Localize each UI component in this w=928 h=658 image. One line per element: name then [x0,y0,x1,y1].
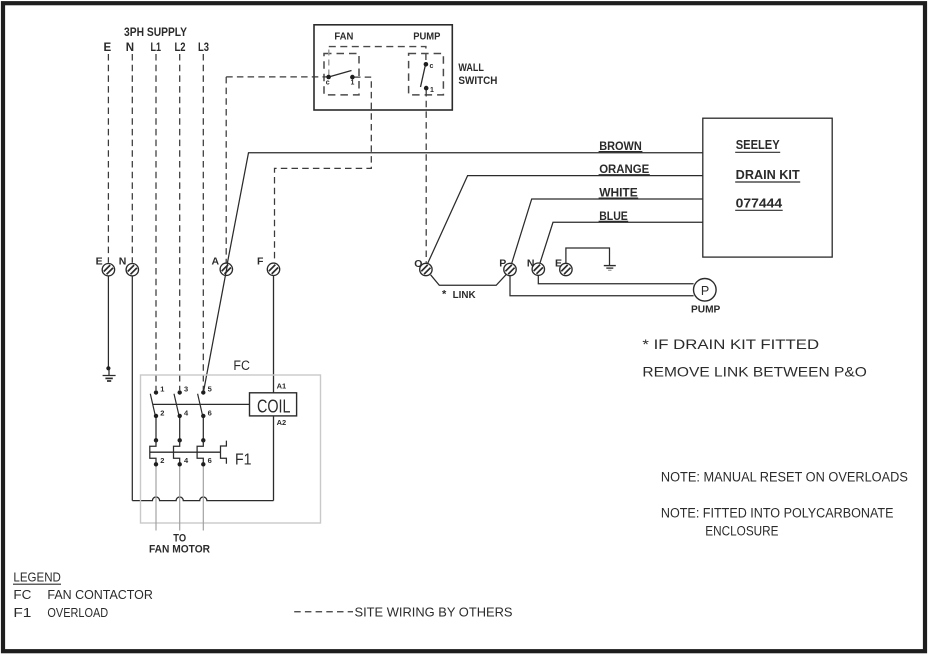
ground symbol right [604,265,616,267]
wire orange from O [428,176,703,264]
overload F1 pole 2 heater [174,440,180,464]
svg-text:LEGEND: LEGEND [13,570,61,585]
svg-text:FC: FC [233,358,250,373]
svg-text:c: c [430,63,434,70]
pump switch dashed box [409,54,444,95]
fan switch contact c [326,75,331,80]
svg-text:A2: A2 [277,418,287,427]
svg-text:NOTE: MANUAL RESET ON OVERLOAD: NOTE: MANUAL RESET ON OVERLOADS [661,469,908,484]
wall switch box [314,25,452,110]
svg-text:5: 5 [208,384,212,393]
svg-text:E: E [104,42,112,54]
motor wire 1 [155,467,157,531]
coil box [250,393,297,416]
svg-text:3: 3 [184,384,188,393]
wire P to pump [510,276,694,296]
svg-text:A1: A1 [277,382,287,391]
svg-text:1: 1 [160,384,164,393]
ground symbol left [108,368,110,375]
contactor linkage line to coil [153,403,250,405]
svg-text:OVERLOAD: OVERLOAD [47,605,108,620]
svg-text:3PH SUPPLY: 3PH SUPPLY [124,27,187,39]
svg-text:E: E [96,255,103,267]
svg-text:TO: TO [173,532,186,544]
terminal E right [560,263,572,275]
svg-text:6: 6 [208,408,212,417]
svg-text:L1: L1 [151,42,162,54]
svg-text:COIL: COIL [257,396,291,417]
wire dashed from fan c to left [226,76,327,78]
wire pole 1 to overload [155,418,157,440]
junction dot earth [106,366,110,370]
svg-text:A: A [212,256,220,268]
terminal F [267,263,279,275]
wire neutral return with hops [132,497,273,501]
svg-text:FC: FC [13,587,31,602]
wire earth left down [107,276,109,368]
svg-text:SWITCH: SWITCH [458,75,497,87]
svg-text:FAN: FAN [334,31,353,42]
svg-text:6: 6 [208,456,212,465]
svg-text:P: P [701,284,709,298]
wire pole 2 to overload [179,418,181,440]
svg-text:DRAIN KIT: DRAIN KIT [736,168,800,182]
svg-text:REMOVE LINK BETWEEN P&O: REMOVE LINK BETWEEN P&O [642,364,867,380]
svg-text:*: * [442,289,447,301]
wire N right to pump [538,276,693,284]
wire E supply dashed [107,54,109,263]
motor wire 3 [202,467,204,531]
contactor pole 2 contact [178,390,182,394]
wire link O to P [431,275,506,286]
wire dashed top run fan to pump [329,47,426,62]
svg-text:SEELEY: SEELEY [736,138,781,152]
svg-text:LINK: LINK [453,290,477,301]
wire N supply dashed [131,54,133,263]
terminal N left [126,264,138,276]
svg-text:F: F [257,256,264,268]
svg-text:BROWN: BROWN [599,139,642,153]
wire L3 dashed [202,54,204,390]
svg-text:F1: F1 [13,605,31,620]
svg-text:WALL: WALL [458,62,484,74]
svg-text:P: P [499,258,506,270]
wire brown from A [227,153,703,264]
svg-text:PUMP: PUMP [413,31,440,42]
overload F1 trip bracket [221,441,227,464]
terminal P [504,263,516,275]
drain kit box U1 [703,118,832,257]
wire dashed fan c up leg [328,47,330,76]
wire white from P [512,199,703,264]
fan switch contact 1 [350,75,355,80]
wire dashed down to terminal A [225,77,227,263]
wire L2 dashed [179,54,181,390]
wire E right to ground [566,248,610,265]
wire blue from N right [540,222,703,263]
svg-text:E: E [555,258,562,270]
terminal O [420,263,432,275]
svg-text:PUMP: PUMP [691,303,720,315]
svg-text:SITE WIRING BY OTHERS: SITE WIRING BY OTHERS [355,604,513,619]
svg-text:1: 1 [430,87,434,94]
terminal A [220,263,232,275]
svg-text:FAN MOTOR: FAN MOTOR [149,544,210,556]
motor wire 2 [179,467,181,531]
svg-text:2: 2 [160,408,164,417]
pump motor M1 [694,279,717,302]
svg-text:L3: L3 [198,42,209,54]
contactor pole 1 contact [154,390,158,394]
svg-text:* IF DRAIN KIT FITTED: * IF DRAIN KIT FITTED [642,336,819,352]
terminal E left [102,264,114,276]
svg-text:N: N [119,255,127,267]
svg-text:N: N [126,42,134,54]
overload F1 pole 3 heater [197,440,203,464]
svg-text:L2: L2 [175,42,186,54]
wire F down to coil A1 [273,276,275,393]
fan switch blade [329,71,352,78]
svg-text:077444: 077444 [736,197,783,211]
wire dashed from pump 1 to terminal O [425,90,427,263]
wire L1 dashed [155,54,157,390]
wire pole 3 to overload [202,418,204,440]
fan switch dashed box [324,54,359,95]
svg-text:N: N [527,258,535,270]
svg-text:ENCLOSURE: ENCLOSURE [705,523,778,538]
svg-text:O: O [414,258,422,270]
wire dashed from fan 1 to terminal F [275,77,372,263]
wire A to contact 5 [204,264,228,391]
svg-text:FAN CONTACTOR: FAN CONTACTOR [47,587,152,602]
svg-text:2: 2 [160,456,164,465]
svg-text:F1: F1 [235,451,252,468]
wire A2 to neutral return [273,416,275,501]
pump switch contact 1 [424,86,429,91]
pump switch blade [421,65,426,87]
contactor pole 3 contact [201,390,205,394]
pump switch contact c [424,62,429,67]
svg-text:NOTE: FITTED INTO POLYCARBONAT: NOTE: FITTED INTO POLYCARBONATE [661,506,894,521]
svg-text:1: 1 [351,80,355,87]
svg-text:c: c [326,80,330,87]
legend site wiring dashed sample [294,611,353,613]
wire neutral left down [131,276,133,501]
contactor FC enclosure box [141,375,321,523]
overload F1 trip bar [150,451,221,453]
overload F1 pole 1 heater [150,440,156,464]
terminal N right [532,263,544,275]
